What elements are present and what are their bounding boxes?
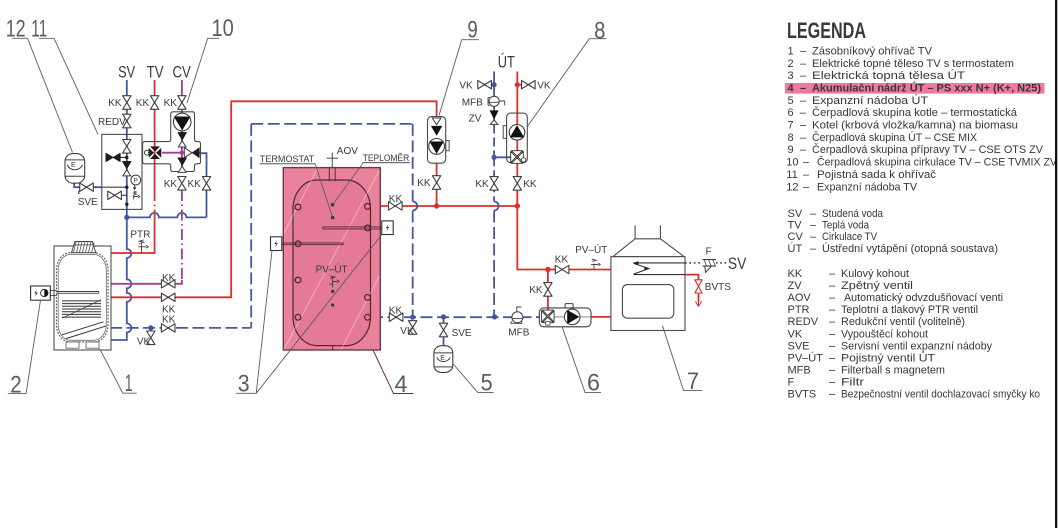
valve REDV pressure reducing — [123, 114, 131, 128]
three-way thermostatic valve in group 6 — [542, 310, 555, 325]
AOV automatic air vent — [327, 153, 338, 168]
svg-text:Elektrické topné těleso TV s t: Elektrické topné těleso TV s termostatem — [812, 58, 1014, 70]
LEGEND — [785, 18, 1058, 401]
svg-text:SV: SV — [118, 63, 135, 82]
check valve horizontal right in group 10 — [184, 147, 199, 158]
svg-text:AOV: AOV — [337, 146, 358, 157]
svg-text:REDV: REDV — [788, 316, 819, 328]
svg-text:Zpětný ventil: Zpětný ventil — [841, 280, 913, 292]
svg-text:Servisní ventil expanzní nádob: Servisní ventil expanzní nádoby — [841, 340, 992, 352]
svg-text:12: 12 — [786, 181, 798, 193]
wire TV heating loop from tank 1 coil up and across to group 9 — [110, 101, 437, 297]
svg-text:Filtr: Filtr — [841, 377, 864, 389]
svg-text:Bezpečnostní ventil dochlazova: Bezpečnostní ventil dochlazovací smyčky … — [841, 389, 1040, 401]
valve KK below group 8 supply — [513, 177, 521, 191]
wire blue riser to circulation group right port — [201, 153, 207, 217]
check valve in group 9 — [431, 118, 442, 136]
svg-text:TERMOSTAT: TERMOSTAT — [260, 154, 315, 165]
svg-text:TV: TV — [788, 219, 803, 231]
three-way mixing valve in group 8 — [511, 151, 526, 164]
svg-text:BVTS: BVTS — [705, 282, 731, 293]
svg-text:Redukční ventil (volitelně): Redukční ventil (volitelně) — [841, 316, 965, 328]
expansion vessel 5 — [434, 346, 453, 373]
node UT return mixing branch — [492, 155, 497, 160]
svg-text:–: – — [829, 268, 836, 280]
svg-text:KK: KK — [529, 285, 543, 296]
svg-text:2: 2 — [10, 371, 21, 398]
wire UT dashed boundary box left — [250, 124, 252, 328]
three-way mixing valve on TV line in group 10 — [144, 146, 161, 159]
svg-text:AOV: AOV — [788, 292, 812, 304]
electric heating element left of tank 4 — [271, 237, 344, 251]
electric heating element 2 with thermostat — [31, 286, 99, 300]
wire SV down along tank 1 with humps, into tank bottom — [110, 217, 131, 340]
svg-text:Teplá voda: Teplá voda — [822, 219, 870, 231]
svg-text:1: 1 — [788, 45, 794, 57]
svg-text:–: – — [800, 132, 807, 144]
svg-text:–: – — [829, 304, 836, 316]
heating coil of tank 1 — [62, 301, 101, 317]
svg-text:5: 5 — [788, 95, 794, 107]
svg-text:Expanzní nádoba ÚT: Expanzní nádoba ÚT — [812, 94, 928, 107]
pump of group 10 — [173, 113, 191, 131]
valve SVE service valve of vessel 12 — [80, 183, 94, 191]
svg-text:Elektrická topná tělesa ÚT: Elektrická topná tělesa ÚT — [812, 69, 965, 82]
svg-text:REDV: REDV — [98, 117, 126, 128]
wire SV bus horizontal with humps over TV and CV — [127, 213, 207, 218]
svg-text:Čerpadlová skupina cirkulace T: Čerpadlová skupina cirkulace TV – CSE TV… — [817, 156, 1058, 169]
svg-text:BVTS: BVTS — [788, 389, 817, 401]
valve PTR temperature pressure relief — [138, 240, 148, 253]
svg-text:PV–ÚT: PV–ÚT — [575, 243, 607, 256]
svg-text:KK: KK — [417, 178, 431, 189]
wire tank 1 UT dashed return line — [110, 327, 251, 329]
svg-text:KK: KK — [475, 179, 489, 190]
filter F on boiler SV feed — [703, 259, 716, 272]
svg-text:KK: KK — [389, 306, 403, 317]
svg-text:–: – — [810, 219, 817, 231]
svg-text:Filterball s magnetem: Filterball s magnetem — [841, 364, 945, 376]
safety relief valve inside safety set — [134, 191, 140, 199]
pump of group 9 — [429, 139, 445, 155]
svg-text:–: – — [810, 231, 817, 243]
svg-text:–: – — [800, 83, 806, 95]
svg-text:–: – — [829, 292, 836, 304]
junction dot CV mixing — [180, 151, 184, 155]
valve KK below group 8 return — [490, 177, 498, 191]
svg-text:SVE: SVE — [78, 197, 98, 208]
svg-text:–: – — [829, 377, 836, 389]
check valve ZV inside safety set — [122, 161, 131, 176]
svg-text:–: – — [800, 45, 807, 57]
svg-text:VK: VK — [400, 326, 414, 337]
valve VK on UT supply — [522, 81, 536, 89]
svg-text:–: – — [803, 181, 810, 193]
svg-text:KK: KK — [523, 179, 537, 190]
svg-text:–: – — [829, 328, 836, 340]
valve KK tank 4 bottom — [389, 313, 403, 321]
valve KK below group 10 blue — [202, 177, 210, 191]
svg-text:KK: KK — [389, 194, 403, 205]
svg-text:SV: SV — [728, 254, 747, 273]
svg-text:SV: SV — [788, 208, 803, 220]
svg-text:F: F — [788, 377, 795, 389]
svg-text:TV: TV — [147, 63, 165, 82]
svg-text:Pojistná sada k ohřívač: Pojistná sada k ohřívač — [817, 169, 937, 181]
svg-text:KK: KK — [164, 98, 178, 109]
wire expansion vessel 5 drop — [443, 317, 445, 346]
valve VK on UT return — [478, 81, 492, 89]
node SV bus junction — [124, 215, 129, 220]
wire boiler branch down to pump group 6 — [547, 270, 549, 310]
svg-text:PV–ÚT: PV–ÚT — [316, 262, 348, 275]
svg-text:SVE: SVE — [452, 328, 472, 339]
wire UT drain stubs at VK valves — [478, 84, 494, 86]
wire UT dashed boundary box right upper with hump — [412, 124, 414, 202]
svg-text:Cirkulace TV: Cirkulace TV — [822, 231, 878, 243]
svg-text:Studená voda: Studená voda — [822, 208, 884, 220]
wire CV dash-dot down to tank 1 — [181, 190, 183, 280]
pump group 8 body CSE MIX — [507, 113, 528, 163]
svg-text:P: P — [134, 178, 138, 185]
svg-text:KK: KK — [136, 98, 150, 109]
svg-text:–: – — [800, 95, 807, 107]
svg-text:6: 6 — [788, 107, 794, 119]
svg-text:Teplotní a tlakový PTR ventil: Teplotní a tlakový PTR ventil — [841, 304, 978, 316]
svg-text:2: 2 — [788, 58, 794, 70]
valve VK drain tank 4 — [409, 321, 417, 335]
svg-text:Čerpadlová skupina ÚT – CSE MI: Čerpadlová skupina ÚT – CSE MIX — [812, 131, 978, 144]
svg-text:KK: KK — [162, 273, 176, 284]
svg-text:Zásobníkový ohřívač TV: Zásobníkový ohřívač TV — [812, 45, 933, 57]
check valve below center in group 10 — [178, 158, 187, 173]
svg-text:KK: KK — [108, 98, 122, 109]
valve KK on CV tank line — [161, 280, 175, 288]
filter MFB with magnet on UT return — [488, 96, 505, 106]
valve PV-UT on boiler supply — [591, 259, 600, 269]
frame border right — [1055, 0, 1057, 528]
svg-text:–: – — [810, 243, 817, 255]
valve shut-off black inside safety set — [106, 153, 129, 161]
wire boiler cooling loop outlet to BVTS — [685, 275, 699, 280]
svg-text:VK: VK — [788, 328, 803, 340]
svg-text:MFB: MFB — [508, 327, 529, 338]
sensor dots in tank 4 — [331, 203, 335, 207]
wire boiler SV dotted feed line — [685, 262, 727, 264]
svg-text:–: – — [829, 340, 836, 352]
node boiler supply branch junction — [545, 267, 550, 272]
drain valve inside safety set — [108, 191, 122, 199]
svg-text:Automatický odvzdušňovací vent: Automatický odvzdušňovací venti — [844, 292, 1003, 304]
valve KK inside safety set — [123, 140, 131, 154]
svg-text:KK: KK — [188, 179, 202, 190]
junction dot VK branch tank 1 — [148, 325, 153, 330]
valve KK on SV line — [123, 96, 131, 110]
svg-text:10: 10 — [786, 157, 798, 169]
valve KK on boiler supply horizontal — [555, 265, 569, 273]
wire UT dashed boundary box top — [251, 123, 413, 125]
valve KK on UT dashed line — [161, 324, 175, 332]
tank 4 port circles — [295, 204, 370, 321]
valve KK tank 4 hot outlet — [389, 202, 403, 210]
svg-text:MFB: MFB — [462, 98, 483, 109]
valve KK on CV line — [178, 96, 186, 110]
svg-text:ZV: ZV — [788, 280, 803, 292]
tank 4 accumulation tank — [283, 168, 380, 350]
wire UT return branch to pump group 8 mixing valve — [494, 156, 510, 158]
svg-text:CV: CV — [173, 63, 192, 82]
wire pump group 6 outlet to boiler — [591, 316, 611, 318]
svg-text:PTR: PTR — [788, 304, 810, 316]
svg-text:LEGENDA: LEGENDA — [787, 18, 866, 43]
svg-text:–: – — [810, 208, 817, 220]
svg-text:F: F — [706, 247, 712, 258]
BVTS discharge arrow — [695, 301, 701, 306]
svg-text:9: 9 — [788, 144, 794, 156]
node hot header UT riser junction — [515, 203, 520, 208]
valve BVTS safety cooling valve — [695, 280, 702, 293]
junction dot tank 4 bottom — [410, 315, 415, 320]
svg-text:8: 8 — [788, 132, 794, 144]
svg-text:Kulový kohout: Kulový kohout — [841, 268, 909, 280]
svg-text:Vypouštěcí kohout: Vypouštěcí kohout — [841, 328, 928, 340]
svg-text:SVE: SVE — [788, 340, 810, 352]
svg-text:PTR: PTR — [130, 230, 150, 241]
svg-text:8: 8 — [594, 17, 605, 44]
svg-text:4: 4 — [788, 83, 795, 95]
svg-text:VK: VK — [137, 336, 151, 347]
svg-text:KK: KK — [164, 179, 178, 190]
svg-text:3: 3 — [788, 70, 794, 82]
svg-text:Expanzní nádoba TV: Expanzní nádoba TV — [817, 181, 918, 193]
svg-text:–: – — [829, 280, 836, 292]
svg-text:–: – — [829, 352, 836, 364]
svg-text:–: – — [829, 389, 836, 401]
legend highlight row 4 — [785, 83, 1045, 94]
wire tank 4 bottom dashed line to pump group 6 — [371, 316, 539, 318]
svg-text:KK: KK — [162, 314, 176, 325]
wire TV hot water vertical — [98, 80, 155, 253]
node hot header group 9 junction — [434, 203, 439, 208]
valve KK below group 10 CV — [178, 177, 186, 191]
wire SV cold water vertical from SV label through safety set — [126, 80, 128, 217]
wire CV circulation vertical top — [181, 80, 183, 172]
check valve in group 10 column — [178, 132, 187, 147]
pump of group 8 — [509, 125, 525, 141]
pump of group 6 — [564, 309, 580, 325]
wire hot header from tank 4 to UT riser — [371, 205, 517, 207]
valve KK on TV line — [150, 96, 158, 110]
wire CV mixing line inside group 10 — [162, 152, 201, 154]
svg-text:E: E — [71, 162, 76, 169]
valve PV-UT safety valve inside tank 4 drawing — [330, 276, 340, 288]
node UT return bottom junction — [492, 314, 497, 319]
valve SVE of vessel 5 — [439, 323, 447, 337]
wire UT return riser from UT label — [493, 72, 495, 125]
svg-text:–: – — [800, 58, 807, 70]
expansion vessel 12 — [65, 154, 85, 184]
pump group 6 body thermostatic — [539, 308, 591, 327]
svg-text:PV–ÚT: PV–ÚT — [788, 351, 824, 364]
svg-text:Akumulační nádrž ÚT – PS xxx N: Akumulační nádrž ÚT – PS xxx N+ (K+, N25… — [812, 82, 1041, 95]
svg-text:7: 7 — [788, 120, 794, 132]
valve KK on TV coil line — [161, 293, 175, 301]
boiler cooling coil — [634, 263, 687, 275]
electric heating element right of tank 4 — [323, 221, 393, 235]
svg-text:Ústřední vytápění (otopná sous: Ústřední vytápění (otopná soustava) — [822, 242, 998, 255]
svg-text:–: – — [829, 316, 836, 328]
junction dot SVE vessel 5 — [441, 314, 446, 319]
node UT return VK junction — [492, 82, 497, 87]
check valve ZV on UT return — [490, 110, 499, 124]
wire BVTS discharge — [698, 294, 700, 302]
svg-text:MFB: MFB — [788, 364, 811, 376]
svg-text:–: – — [800, 144, 807, 156]
svg-text:–: – — [800, 70, 807, 82]
svg-text:VK: VK — [459, 81, 473, 92]
svg-text:–: – — [803, 169, 810, 181]
svg-text:Čerpadlová skupina přípravy TV: Čerpadlová skupina přípravy TV – CSE OTS… — [812, 143, 1044, 156]
svg-text:Čerpadlová skupina kotle – ter: Čerpadlová skupina kotle – termostatická — [812, 106, 1018, 119]
valve KK on boiler branch — [544, 283, 552, 297]
node UT supply VK junction — [515, 82, 520, 87]
pressure gauge P — [131, 175, 141, 190]
boiler 7 biomass stove — [611, 225, 685, 330]
svg-text:ÚT: ÚT — [788, 242, 803, 255]
filter MFB before pump group 6 — [511, 307, 523, 324]
junction dots in safety set — [125, 186, 128, 189]
PIPES — [74, 72, 727, 346]
svg-text:Pojistný ventil ÚT: Pojistný ventil ÚT — [841, 351, 935, 364]
svg-text:KK: KK — [555, 254, 569, 265]
svg-text:11: 11 — [786, 169, 797, 181]
wire UT supply riser down to boiler supply — [517, 72, 611, 270]
svg-text:Kotel (krbová vložka/kamna) na: Kotel (krbová vložka/kamna) na biomasu — [812, 120, 1018, 132]
svg-text:ZV: ZV — [469, 114, 482, 125]
svg-text:–: – — [829, 364, 836, 376]
svg-text:–: – — [800, 107, 807, 119]
pump group 10 body CSE TVMIX ZV — [143, 112, 201, 172]
svg-text:ÚT: ÚT — [498, 52, 515, 71]
svg-text:–: – — [800, 120, 807, 132]
safety set 11 box — [102, 134, 142, 209]
valve VK drain tank 1 — [147, 331, 155, 345]
svg-text:–: – — [803, 157, 810, 169]
tank 1 DHW storage heater — [54, 242, 111, 351]
pump group 9 body CSE OTS ZV — [428, 117, 446, 164]
svg-text:E: E — [440, 355, 445, 362]
wire expansion vessel 12 service line — [74, 183, 102, 187]
wire group 9 outlet down to hot header — [436, 163, 438, 206]
svg-text:CV: CV — [788, 231, 804, 243]
svg-text:VK: VK — [537, 81, 551, 92]
svg-text:KK: KK — [788, 268, 803, 280]
wire UT return riser down with hump over hot header — [493, 157, 495, 201]
valve KK below group 9 — [432, 176, 440, 190]
